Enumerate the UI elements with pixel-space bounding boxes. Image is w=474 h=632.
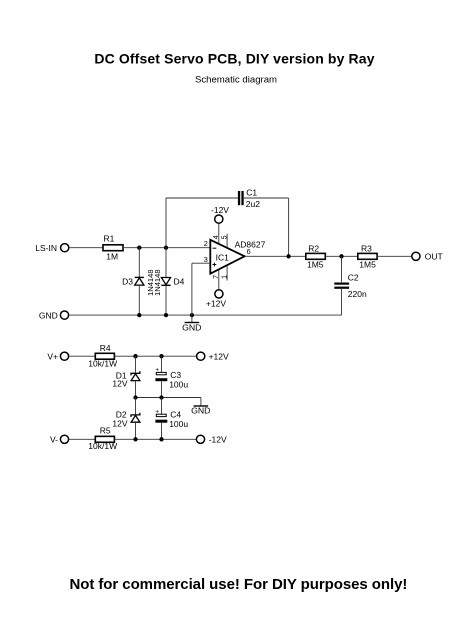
wire feedback top left segment [166,197,238,199]
wire feedback riser from input node [165,198,167,248]
wire middle gnd rail [136,397,201,399]
minus sign pin 2 [213,247,217,249]
resistor R3 [358,243,377,269]
ground symbol GND (psu) [191,398,210,416]
svg-text:7: 7 [213,275,220,279]
capacitor C4 (polarized) [155,398,188,440]
diode D3 [122,248,144,315]
node D2/bottom rail [133,437,137,441]
node D4/feedback junction [164,246,168,250]
capacitor C1 [238,187,260,209]
svg-text:R3: R3 [361,243,372,253]
svg-text:-12V: -12V [209,435,227,445]
wire R4 to +12V [114,355,196,357]
svg-text:12V: 12V [112,418,127,428]
wire V+ to R4 [69,355,96,357]
terminal -12V (rail) [196,435,227,445]
wire feedback top right segment [244,197,289,199]
pin 5 / pin 1 stub line [226,234,228,281]
svg-text:LS-IN: LS-IN [35,243,57,253]
wire R2 to R3 [325,255,358,257]
node D4/gnd [164,313,168,317]
svg-text:1M5: 1M5 [359,259,376,269]
svg-text:V+: V+ [47,352,58,362]
svg-text:R4: R4 [100,343,111,353]
wire R1 to op-amp pin 2 [123,247,210,249]
svg-text:100u: 100u [169,379,188,389]
wire op-amp output to R2 [245,255,306,257]
node R2/R3/C2 junction [339,254,343,258]
svg-text:+: + [155,408,159,415]
terminal V- [50,434,69,444]
svg-text:220n: 220n [348,289,367,299]
wire feedback down to output [288,198,290,256]
node C3/top rail [159,354,163,358]
op-amp IC1 [204,223,266,290]
svg-text:V-: V- [50,434,58,444]
ground symbol GND (op-amp) [182,315,201,332]
svg-text:1: 1 [221,275,228,279]
svg-text:12V: 12V [112,379,127,389]
svg-text:GND: GND [191,406,210,416]
svg-text:1M: 1M [106,252,118,262]
svg-text:Schematic diagram: Schematic diagram [195,75,277,86]
wire LS-IN to R1 [69,247,103,249]
svg-text:D4: D4 [174,276,185,286]
svg-text:C1: C1 [246,187,257,197]
svg-text:C2: C2 [348,273,359,283]
wire V- to R5 [69,438,96,440]
terminal +12V (rail) [197,352,229,362]
svg-text:4: 4 [213,235,220,239]
node D1/top rail [133,354,137,358]
svg-text:Not for commercial use! For DI: Not for commercial use! For DIY purposes… [69,576,407,593]
resistor R2 [306,243,326,269]
zener diode D1 [112,356,140,397]
diode D4 [161,248,184,315]
svg-text:DC Offset Servo PCB, DIY versi: DC Offset Servo PCB, DIY version by Ray [94,51,374,67]
svg-text:D3: D3 [122,276,133,286]
svg-text:IC1: IC1 [216,253,230,263]
plus sign pin 3 [213,264,217,266]
node pin3/gnd [190,313,194,317]
terminal V+ [47,352,68,362]
svg-text:10k/1W: 10k/1W [88,441,117,451]
terminal LS-IN [35,243,69,253]
svg-text:R5: R5 [100,425,111,435]
svg-text:+12V: +12V [206,298,226,308]
svg-text:+: + [155,367,159,374]
terminal +12V (op-amp V+) [206,290,226,309]
svg-text:1N4148: 1N4148 [153,269,162,296]
wire ground bus [69,314,342,316]
svg-text:6: 6 [247,247,251,256]
terminal OUT [412,252,443,262]
svg-text:1M5: 1M5 [307,259,324,269]
svg-text:-12V: -12V [211,205,229,215]
node input/D3 junction [137,246,141,250]
pin 4 / pin 7 power line [218,223,220,290]
node C3/C4 [159,395,163,399]
svg-text:GND: GND [182,322,201,332]
svg-text:2: 2 [204,239,208,248]
node C4/bottom rail [159,437,163,441]
node D3/gnd [137,313,141,317]
svg-text:5: 5 [221,235,228,239]
wire R3 to OUT [377,255,412,257]
node D1/D2 [133,395,137,399]
node feedback/output junction [286,254,290,258]
zener diode D2 [112,398,140,440]
svg-text:R1: R1 [104,233,115,243]
svg-text:GND: GND [39,310,58,320]
capacitor C3 (polarized) [155,356,188,397]
wire gnd to op-amp pin 3 [192,263,210,315]
svg-text:2u2: 2u2 [246,199,260,209]
capacitor C2 [334,256,367,315]
resistor R4 [88,343,117,368]
terminal -12V (op-amp V-) [211,205,229,223]
svg-text:OUT: OUT [425,252,443,262]
wire R5 to -12V [114,438,196,440]
terminal GND (left) [39,310,69,320]
svg-text:100u: 100u [169,419,188,429]
svg-text:+12V: +12V [209,352,229,362]
resistor R1 [103,233,123,261]
svg-text:10k/1W: 10k/1W [88,358,117,368]
svg-text:R2: R2 [308,243,319,253]
resistor R5 [88,425,117,451]
